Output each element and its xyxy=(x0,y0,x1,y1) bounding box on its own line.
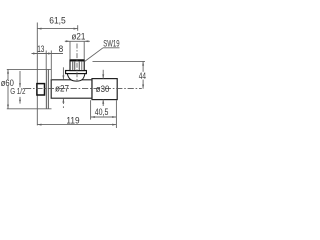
outlet: o30 section xyxy=(92,79,117,100)
dimension 40,5 xyxy=(91,100,117,128)
dimension 13 and 8 xyxy=(32,51,64,80)
svg-text:SW19: SW19 xyxy=(103,38,119,49)
dimension o60 xyxy=(7,69,52,108)
svg-text:40,5: 40,5 xyxy=(95,107,109,117)
svg-text:G 1/2: G 1/2 xyxy=(10,86,25,96)
knurl lines xyxy=(73,62,82,71)
svg-text:ø30: ø30 xyxy=(96,84,110,95)
svg-text:ø27: ø27 xyxy=(55,83,69,94)
body: valve body o27 xyxy=(51,80,92,98)
dimension o27 xyxy=(62,67,64,108)
collar under cap xyxy=(66,71,87,74)
rosette o60 xyxy=(46,69,48,109)
cap knurled handle o21 xyxy=(70,60,84,71)
svg-text:44: 44 xyxy=(139,71,147,81)
dimension 119 xyxy=(37,124,116,126)
svg-text:13: 13 xyxy=(37,44,45,54)
label G 1/2 xyxy=(19,71,21,104)
bonnet dome xyxy=(67,74,85,81)
thread stub G1/2 xyxy=(37,84,45,95)
dimension o30 xyxy=(102,70,104,106)
dimension 44 xyxy=(93,61,146,88)
node: vertical centerline of headwork xyxy=(76,44,78,82)
dimension o21 xyxy=(65,40,90,59)
dimension 61,5 xyxy=(37,25,77,31)
svg-text:ø21: ø21 xyxy=(71,31,85,42)
node: horizontal centerline xyxy=(25,87,142,89)
svg-text:119: 119 xyxy=(66,115,79,125)
wire: wall reference extension line xyxy=(36,23,38,126)
svg-text:8: 8 xyxy=(59,43,64,53)
svg-text:61,5: 61,5 xyxy=(49,15,66,25)
label SW19 with leader xyxy=(84,48,119,62)
